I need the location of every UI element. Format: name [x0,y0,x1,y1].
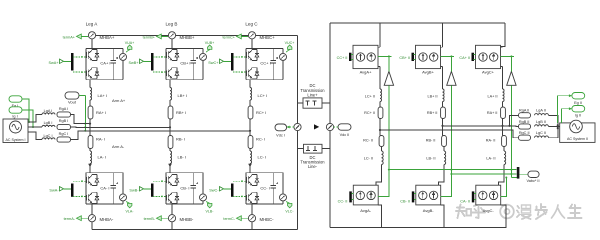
node junction phase A station I [89,123,91,125]
wire gain output green B II [450,56,452,71]
wire inductor to resistor A+ [89,100,91,106]
input port SwC+ [208,59,223,65]
wire DC bus drop leg A II [379,23,381,47]
wire SM B+ to arm inductor [169,80,171,88]
wire meter to SM B+ [171,39,173,49]
goto tag termB- [144,216,169,221]
transistor T1 SM B+ (IGBT+diode) [166,49,178,60]
label RB- I [176,137,185,142]
wire green feedback horizontal [389,169,517,171]
node AC II pin dots [557,124,559,129]
inductor LB- I [170,151,172,164]
resistor RB- II [426,136,447,147]
wire AvgC+ green output [501,55,515,57]
label Arm A+ [112,98,126,103]
demux AvgC+ input [472,53,476,61]
label AvgB- [423,208,434,213]
source AC System I [3,119,28,143]
block AvgB- arm average model [416,185,441,205]
wire gate T1 C- [233,180,246,182]
wire AC I phase B stub [28,126,42,128]
demux gate signals B- [151,184,154,197]
resistor RB+ II [427,107,446,119]
resistor RB+ I [168,106,173,119]
svg-text:RA- I: RA- I [96,137,105,142]
svg-text:RC- II: RC- II [363,139,373,143]
wire SM A+ bottom rail [86,79,123,81]
svg-text:RgB I: RgB I [59,119,69,123]
svg-text:LC- I: LC- I [258,155,267,160]
wire arrow arm A- [88,164,92,173]
svg-text:CB+ II: CB+ II [399,56,410,60]
block AvgA- arm average model [353,185,378,205]
wire Ig II tap [562,107,572,123]
demux gate signals B+ [151,53,154,71]
label MHBA+ [100,35,115,40]
transistor T2 SM A+ (IGBT+diode) [86,68,98,79]
svg-text:AvgC-: AvgC- [483,208,495,213]
wire R to L B- II [443,147,445,152]
wire AvgA+ green output [378,55,392,57]
svg-text:RB+ I: RB+ I [176,110,186,115]
svg-text:SwA+: SwA+ [48,61,59,65]
goto tag termB+ [143,34,169,39]
block DC Transmission Line+ [298,98,331,108]
svg-text:Line-: Line- [308,164,318,169]
demux AvgA- input [349,191,353,202]
goto tag termC+ [222,34,248,39]
wire SM C+ left rail [245,48,247,79]
transistor T2 SM A- (IGBT+diode) [86,192,98,203]
svg-text:LB- I: LB- I [178,155,186,160]
input port SwA+ [48,59,63,65]
transistor T1 SM A+ (IGBT+diode) [86,49,98,60]
resistor RC+ I [248,106,253,119]
svg-text:MHBA-: MHBA- [100,217,114,222]
voltmeter VCA- SM [120,173,127,204]
svg-text:CC- I: CC- I [260,186,269,191]
svg-text:AvgC+: AvgC+ [482,69,495,74]
input port SwB+ [128,59,143,65]
wire meter to SM A+ [91,39,93,49]
resistor RgB II [519,120,531,129]
wire AvgB+ green output [441,55,455,175]
label DC Transmission Line- [300,155,325,169]
svg-text:MHBC-: MHBC- [260,217,275,222]
ammeter MHBA+ upper arm [88,32,95,39]
svg-text:VLB-: VLB- [206,210,215,214]
wire right DC rail lower [329,131,331,228]
svg-text:MHBC+: MHBC+ [260,35,276,40]
from tag CA- II input [460,199,470,203]
wire arm A II to phase node [501,119,503,136]
wire arm C II to phase node [379,119,381,136]
wire arm B II to phase node [441,119,443,136]
wire into AvgA+ top pin [378,46,380,48]
wire Eg I tap [22,99,30,123]
svg-text:SwA-: SwA- [49,188,59,192]
svg-text:RA- II: RA- II [486,139,496,143]
svg-text:Vdc II: Vdc II [340,133,350,137]
wire gate T1 C+ [233,56,246,58]
demux gate signals C+ [231,53,234,71]
wire phase A to leg A [71,115,91,124]
ammeter MHBB- lower arm [168,215,175,222]
scope Vdc I [275,124,287,138]
svg-text:termB+: termB+ [143,35,156,39]
resistor RgC I [57,132,71,142]
label DC Transmission Line+ [300,83,325,97]
demux AvgC- input [472,191,476,202]
svg-text:LC- II: LC- II [364,156,373,160]
wire green feedback horizontal 2 [451,173,516,175]
wire SM C- left rail [245,173,247,204]
svg-text:MHBB+: MHBB+ [180,35,195,40]
label CC+ I [260,60,270,65]
goto tag termA+ [63,34,89,39]
node label Leg C [245,22,258,27]
svg-text:Vdc I: Vdc I [276,134,285,138]
wire meter A- to bottom bus [91,222,93,230]
label Arm A- [112,144,125,149]
input port SwA- [49,187,63,193]
wire gate T2 C+ [233,71,246,73]
label RC+ I [256,110,266,115]
node label Leg A [86,22,99,27]
goto tag termA- [64,216,89,221]
node junction phase B station I [169,126,171,128]
resistor RC+ II [364,107,383,119]
svg-text:VUB+: VUB+ [205,41,215,45]
svg-text:AvgB+: AvgB+ [422,69,434,74]
from tag CC- II input [338,199,348,203]
capacitor CB- I [191,173,199,204]
wire bottom DC- bus station II [330,227,507,229]
label RA+ I [96,110,106,115]
wire SM A- to meter [91,204,93,215]
wire SM A- bottom rail [86,203,123,205]
label AvgA- [360,208,371,213]
ammeter MHBA- lower arm [88,215,95,222]
svg-text:CB- II: CB- II [400,199,410,203]
label RA- I [96,137,105,142]
svg-text:VUC+: VUC+ [285,41,295,45]
svg-text:CB+ I: CB+ I [180,60,190,65]
svg-text:RC+ II: RC+ II [364,111,375,115]
label CC- I [260,186,269,191]
demux gate signals C- [231,184,234,197]
svg-text:SwC-: SwC- [209,188,219,192]
node green taps phase lines [84,123,86,132]
svg-text:LB+ II: LB+ II [427,94,437,98]
svg-text:MHBB-: MHBB- [180,217,194,222]
inductor LgC I [42,134,55,140]
svg-text:LB- II: LB- II [426,156,435,160]
svg-text:Ig II: Ig II [575,113,581,117]
wire SM B- top rail [166,172,203,174]
wire SM B- bottom rail [166,203,203,205]
wire into AvgB+ top pin [441,46,443,48]
goto tag VLA- [126,202,135,214]
wire AvgB+ bottom pin [441,67,443,89]
wire SM B+ bottom rail [166,79,203,81]
label CA- I [100,186,109,191]
wire gate T2 A- [73,196,86,198]
from tag CC+ II input [337,56,348,60]
wire right DC rail upper [329,23,331,123]
wire DC bus drop leg C II [501,23,506,47]
scope Eg II [572,93,585,106]
svg-text:VUA+: VUA+ [125,41,135,45]
svg-text:LA- II: LA- II [486,156,495,160]
inductor LA+ I [90,88,92,101]
svg-text:CA+ II: CA+ II [459,56,470,60]
label RC- I [256,137,265,142]
block AvgC- arm average model [476,185,501,205]
svg-text:CA- II: CA- II [460,199,470,203]
wire gate T2 B+ [153,71,166,73]
label MHBC+ [260,35,276,40]
resistor RA+ I [88,106,93,119]
wire AvgC+ bottom pin [501,67,503,89]
wire resistor to inductor C- [249,149,251,152]
inductor LC- I [250,151,252,164]
wire SM C- top rail [246,172,283,174]
scope Vdc II [338,124,351,137]
wire AvgA- green output [378,169,390,197]
wire L to R A+ II [502,102,504,108]
block AvgB+ arm average model [416,45,441,68]
resistor RA- I [88,136,93,149]
wire left DC rail lower [297,131,299,230]
resistor RB- I [168,136,173,149]
wire AvgA+ bottom pin [378,67,380,89]
wire gate T2 B- [153,196,166,198]
svg-text:AvgA-: AvgA- [360,208,371,213]
svg-text:LA+ I: LA+ I [98,93,107,98]
svg-text:LgC II: LgC II [536,131,546,135]
scope Vabc* II [519,171,539,183]
svg-text:Vout: Vout [68,100,77,105]
wire phase C II to grid [380,130,519,138]
from tag CB- II input [400,199,410,203]
scope Vout [65,92,79,105]
capacitor CC- I [271,173,279,204]
svg-text:Eg II: Eg II [574,101,582,105]
svg-text:RC- I: RC- I [256,137,265,142]
label CA+ I [100,60,110,65]
wire Vout green tap [79,96,85,131]
wire AvgC- to bottom bus [501,205,507,228]
wire gate T1 A+ [73,56,86,58]
voltmeter VCC- SM [280,173,287,204]
wire gain input green C II [510,85,516,177]
svg-text:RgA II: RgA II [519,109,529,113]
capacitor CA- I [111,173,119,204]
svg-text:CC+ I: CC+ I [260,60,270,65]
inductor LgC II [535,131,549,138]
wire meter C- to bottom bus [251,222,253,230]
transistor T1 SM C+ (IGBT+diode) [246,49,258,60]
mux Vabc* II [517,167,520,179]
input port SwC- [209,187,223,193]
wire arm A- II to Avg block [499,165,505,186]
svg-text:RgC II: RgC II [519,131,530,135]
svg-text:VLA-: VLA- [126,210,135,214]
node label Leg B [165,22,177,27]
inductor LgA II [535,109,549,116]
svg-text:SwB-: SwB- [129,188,139,192]
svg-text:SwB+: SwB+ [128,61,139,65]
demux gate signals A+ [71,53,74,71]
wire SM A+ left rail [85,48,87,79]
goto tag termC- [223,216,248,221]
wire AC I phase C stub [28,132,42,140]
svg-text:termC+: termC+ [222,35,235,39]
gain block leg B II [447,71,456,85]
svg-text:RA+ II: RA+ II [487,111,498,115]
svg-text:Line+: Line+ [307,93,318,98]
block AvgC+ arm average model [476,45,501,68]
wire inductor to resistor C+ [249,100,251,106]
goto tag VUA+ [125,41,135,52]
voltmeter Vdc II on right rail [326,123,333,130]
svg-text:LA+ II: LA+ II [487,94,497,98]
wire gate input C- [224,188,232,190]
wire inductor to resistor B+ [169,100,171,106]
demux gate signals A- [71,184,74,197]
wire R to L A- II [503,147,505,152]
label LA+ I [98,93,107,98]
svg-text:Arm A-: Arm A- [112,144,125,149]
label AvgA+ [360,69,372,74]
voltmeter VCB+ SM [200,48,207,79]
label MHBC- [260,217,275,222]
svg-text:CC+ II: CC+ II [337,56,348,60]
svg-text:RB+ II: RB+ II [427,111,438,115]
svg-text:RgC I: RgC I [59,132,69,136]
wire gate input B- [144,188,152,190]
transistor T1 SM A- (IGBT+diode) [86,175,98,186]
svg-text:LgA II: LgA II [536,109,546,113]
wire AC I phase A stub [28,115,42,123]
svg-text:Leg B: Leg B [165,22,177,27]
wire into AvgC+ top pin [501,46,503,48]
inductor LB+ I [170,88,172,101]
wire phase B II to grid [443,125,519,128]
svg-text:Leg C: Leg C [245,22,258,27]
node junction phase C station I [249,130,251,132]
resistor RgB I [57,119,71,129]
demux AvgB- input [412,191,416,202]
svg-text:RC+ I: RC+ I [256,110,266,115]
inductor LgA I [42,109,55,114]
from tag CA+ II input [459,56,470,60]
resistor RA+ II [487,107,506,119]
wire gate T1 B- [153,180,166,182]
resistor RgA I [57,107,71,117]
ammeter MHBB+ upper arm [168,32,175,39]
label MHBB- [180,217,194,222]
wire SM C+ to arm inductor [249,80,251,88]
svg-text:termB-: termB- [144,217,156,221]
svg-text:LgB I: LgB I [44,121,53,125]
wire arm B- II to Avg block [439,165,445,186]
wire resistor to inductor B- [169,149,171,152]
wire SM B- to meter [171,204,173,215]
wire Eg II tap [558,94,572,123]
demux AvgA+ input [349,53,353,61]
voltmeter VCC+ SM [280,48,287,79]
svg-text:Leg A: Leg A [86,22,99,27]
gain block leg A II [384,71,393,85]
wire SM A- left rail [85,173,87,204]
label AvgC- [483,208,495,213]
wire Vdc I green [287,126,294,129]
label LC- I [258,155,267,160]
wire R to L C- II [381,147,383,152]
inductor LB+ II [427,89,444,102]
svg-text:AvgB-: AvgB- [423,208,434,213]
svg-text:termA-: termA- [64,217,76,221]
label LB- I [178,155,186,160]
inductor LC+ II [365,89,382,102]
wire arrow arm B- [168,164,172,173]
wire gate input A+ [64,60,72,62]
wire gate input B+ [144,60,152,62]
wire SM C- bottom rail [246,203,283,205]
wire arm C vertical mid [249,119,251,136]
wire gate T1 B+ [153,56,166,58]
wire L to R C+ II [379,102,381,108]
wire AvgB- green output [441,169,453,197]
wire arrow arm C- [248,164,252,173]
capacitor CB+ I [191,48,199,79]
wire SM C+ bottom rail [246,79,283,81]
resistor RgA II [519,109,531,118]
goto tag VUC+ [285,41,295,52]
wire arm A vertical mid [89,119,91,136]
resistor RC- II [363,136,384,147]
wire SM A- top rail [86,172,123,174]
gain block leg C II [507,71,516,85]
svg-text:CB- I: CB- I [180,186,189,191]
resistor RC- I [248,136,253,149]
wire Vdc II green [334,126,338,128]
wire SM A+ top rail [86,47,123,49]
node Idc arrow [314,124,319,129]
wire gate T1 A- [73,180,86,182]
label AvgC+ [482,69,495,74]
svg-text:CC- II: CC- II [338,199,348,203]
inductor LgB II [535,120,549,127]
capacitor CA+ I [111,48,119,79]
label CB+ I [180,60,190,65]
resistor RA- II [486,136,507,147]
wire meter B- to bottom bus [171,222,173,230]
svg-text:LC+ I: LC+ I [258,93,268,98]
svg-text:RA+ I: RA+ I [96,110,106,115]
capacitor CC+ I [271,48,279,79]
svg-text:RB- II: RB- II [426,139,436,143]
svg-text:termA+: termA+ [63,35,76,39]
resistor RgC II [519,131,531,140]
goto tag VUB+ [205,41,215,52]
svg-text:AC System II: AC System II [567,137,588,141]
voltmeter VCB- SM [200,173,207,204]
svg-text:Ig I: Ig I [12,115,17,119]
scope Eg I [9,96,22,108]
